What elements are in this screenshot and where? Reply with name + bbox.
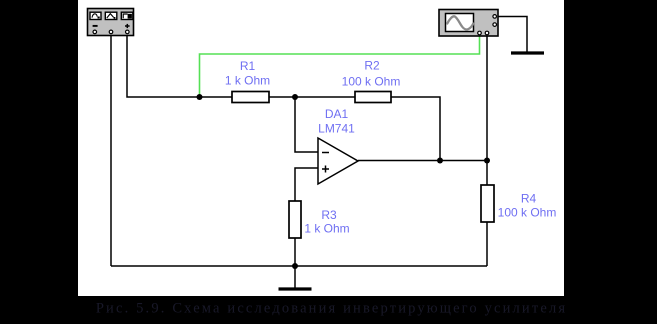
resistor R2	[355, 92, 391, 103]
resistor R3	[289, 201, 301, 238]
wire: op-amp output to right rail	[358, 160, 487, 162]
svg-text:R2: R2	[364, 58, 380, 72]
oscilloscope XSC1	[439, 10, 498, 37]
wire: output node down to R4 top	[486, 161, 488, 186]
node E (bottom rail ground junction)	[292, 263, 298, 269]
resistor R4	[481, 185, 494, 222]
node D (scope/R4 junction)	[484, 158, 490, 164]
svg-text:R3: R3	[321, 208, 337, 222]
green wire: node A to scope channel A	[200, 34, 480, 97]
wire: bottom rail	[111, 265, 487, 267]
svg-text:DA1: DA1	[325, 107, 349, 121]
node B (inverting input junction)	[292, 94, 298, 100]
svg-text:1 k Ohm: 1 k Ohm	[304, 222, 349, 236]
svg-text:1 k Ohm: 1 k Ohm	[225, 73, 270, 87]
svg-text:R4: R4	[521, 192, 537, 206]
wire: R3 bottom to bottom rail	[294, 238, 296, 266]
wire: R4 bottom to bottom rail	[486, 222, 488, 266]
op-amp DA1 LM741	[318, 138, 358, 184]
wire: generator plus terminal down to input rail	[127, 34, 232, 97]
ground (top right)	[511, 51, 544, 54]
wire: R1 right to R2 left	[269, 96, 355, 98]
wire: inverting input from node down and right	[295, 97, 318, 152]
ground (bottom centre)	[279, 266, 312, 289]
svg-text:100 k Ohm: 100 k Ohm	[498, 206, 557, 220]
resistor R1	[232, 92, 269, 103]
node C (feedback/output junction)	[437, 158, 443, 164]
wire: scope channel B down to output node	[486, 35, 488, 161]
wire: generator common terminal down left side	[110, 34, 112, 266]
svg-text:Рис. 5.9. Схема исследования и: Рис. 5.9. Схема исследования инвертирующ…	[96, 301, 567, 317]
white schematic area	[78, 0, 564, 296]
svg-text:R1: R1	[240, 59, 256, 73]
wire: R2 right then down to output rail	[391, 97, 440, 161]
wire: scope ground terminal to top-right ground	[498, 17, 527, 52]
svg-text:100 k Ohm: 100 k Ohm	[342, 75, 401, 89]
wire: non-inverting input left and down to R3	[295, 168, 318, 201]
function generator G1	[88, 9, 134, 36]
svg-text:LM741: LM741	[318, 122, 355, 136]
node A (junction dot at green tap)	[197, 94, 203, 100]
